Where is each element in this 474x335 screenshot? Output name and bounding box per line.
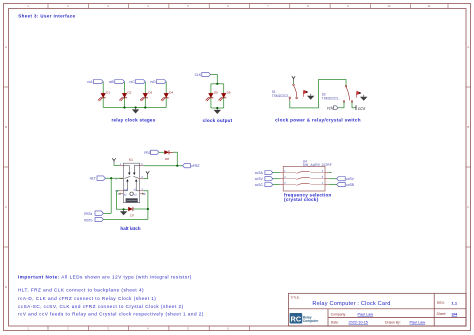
svg-text:Company:: Company: bbox=[331, 313, 347, 317]
wire rcB drop bbox=[124, 82, 126, 108]
svg-text:C: C bbox=[5, 205, 7, 209]
svg-text:cFRZ: cFRZ bbox=[191, 164, 199, 168]
title block divider logo column bbox=[327, 309, 329, 326]
svg-text:RSTa: RSTa bbox=[84, 212, 92, 216]
relay pin 6 bbox=[140, 175, 144, 179]
svg-text:10: 10 bbox=[387, 4, 391, 8]
relay coil pin annotations bbox=[124, 188, 137, 196]
global label RSTa bbox=[84, 211, 103, 216]
wire S1 throw to rail and over to S2 bbox=[290, 80, 346, 108]
svg-text:Date:: Date: bbox=[331, 321, 339, 325]
label rcV bbox=[327, 106, 338, 111]
svg-text:D: D bbox=[5, 285, 7, 289]
U4 row 1 bbox=[280, 170, 329, 173]
svg-text:(crystal clock): (crystal clock) bbox=[284, 197, 319, 202]
PWR_FLAG at S2 bbox=[357, 91, 362, 98]
LED D4 bbox=[161, 91, 174, 102]
relay pin 12 lower coil bbox=[116, 192, 123, 196]
relay pin 10 bbox=[115, 189, 123, 193]
wire RSTb to right rail bbox=[103, 218, 147, 220]
ground at S1 bbox=[307, 94, 314, 100]
svg-text:Important Note: All LEDs show: Important Note: All LEDs shown are 12V t… bbox=[18, 275, 192, 280]
frame ticks bottom bbox=[47, 326, 49, 331]
svg-text:rcD: rcD bbox=[150, 80, 156, 84]
global label cFRZ bbox=[183, 164, 200, 169]
wire HLT to RSTa vertical bbox=[110, 178, 112, 213]
svg-text:C: C bbox=[467, 205, 469, 209]
switch S1 bbox=[289, 84, 297, 101]
title block divider rev column bbox=[433, 293, 435, 326]
svg-text:D4: D4 bbox=[169, 91, 173, 95]
svg-text:D8: D8 bbox=[165, 157, 169, 161]
relay K1 body bbox=[123, 163, 139, 203]
svg-text:ccSA: ccSA bbox=[255, 171, 264, 175]
svg-text:ccV: ccV bbox=[358, 106, 366, 111]
svg-text:rcA-D, CLK and cFRZ connect to: rcA-D, CLK and cFRZ connect to Relay Clo… bbox=[18, 296, 156, 301]
svg-text:rcC: rcC bbox=[130, 80, 136, 84]
ground clock output bbox=[214, 108, 221, 114]
svg-text:HLT: HLT bbox=[90, 177, 96, 181]
svg-text:Paul Law: Paul Law bbox=[358, 313, 374, 317]
wire HLT to relay pin3 bbox=[105, 177, 123, 179]
junction rcB rail bbox=[123, 106, 125, 108]
relay pin 9 lower coil bbox=[140, 192, 146, 196]
svg-text:D6: D6 bbox=[227, 91, 231, 95]
wire ccSA to pin bbox=[273, 172, 280, 174]
global label FRZ bbox=[144, 150, 159, 155]
svg-text:ccSA-SC, ccSV, CLK and cFRZ co: ccSA-SC, ccSV, CLK and cFRZ connect to C… bbox=[18, 304, 184, 309]
ground at latch bbox=[120, 209, 127, 215]
relay coil polarity circle bbox=[130, 192, 133, 195]
svg-text:1.1: 1.1 bbox=[452, 300, 458, 305]
svg-text:B: B bbox=[467, 125, 469, 129]
global label ccSB right bbox=[337, 182, 355, 187]
title block divider title row bbox=[289, 308, 467, 310]
wire relay pin10 down to D7 rail bbox=[116, 191, 123, 210]
svg-text:A: A bbox=[5, 45, 7, 49]
relay pin 3 bbox=[116, 177, 124, 181]
LED D5 bbox=[205, 91, 218, 102]
wire bottom rail clock bbox=[211, 107, 224, 109]
global label ccSV right bbox=[337, 177, 355, 182]
diode D8 bbox=[164, 150, 173, 161]
global label ccSV bbox=[255, 177, 273, 182]
ground relay clock stages bbox=[132, 108, 139, 114]
junction HLT bbox=[110, 177, 112, 179]
svg-text:11: 11 bbox=[427, 4, 430, 8]
wire relay pin1 to right rail down bbox=[143, 191, 148, 220]
svg-text:RSTb: RSTb bbox=[84, 218, 92, 222]
svg-text:rcA: rcA bbox=[87, 80, 93, 84]
wire RSTa bbox=[103, 212, 111, 214]
svg-text:Computer: Computer bbox=[303, 319, 319, 323]
wire rcA drop bbox=[102, 82, 104, 108]
svg-text:B: B bbox=[5, 125, 7, 129]
wire FRZ to D8 bbox=[159, 151, 164, 153]
global label ccSA bbox=[255, 171, 273, 176]
svg-text:ccSB: ccSB bbox=[346, 183, 355, 187]
svg-text:A: A bbox=[467, 45, 469, 49]
relay internal contacts bbox=[123, 165, 139, 190]
wire S2 right throw to ccV bbox=[352, 102, 356, 107]
frame ticks right bbox=[466, 86, 471, 88]
svg-text:TITLE:: TITLE: bbox=[291, 295, 300, 299]
wire S2 left throw to rcV bbox=[338, 102, 344, 107]
LED D3 bbox=[140, 91, 153, 102]
wire rcC drop bbox=[144, 82, 146, 108]
wire right branch bbox=[223, 84, 225, 108]
svg-text:rcV and ccV feeds to Relay and: rcV and ccV feeds to Relay and Crystal c… bbox=[18, 312, 204, 317]
wire bottom rail stages bbox=[103, 107, 166, 109]
power symbol V at relay pin4 bbox=[112, 158, 115, 164]
svg-text:Sheet 3: User Interface: Sheet 3: User Interface bbox=[18, 14, 75, 19]
svg-text:TSM102C3..: TSM102C3.. bbox=[322, 97, 340, 101]
junction rcC rail bbox=[144, 106, 146, 108]
svg-text:FRZ: FRZ bbox=[144, 151, 151, 155]
wire top rail bbox=[211, 83, 224, 85]
wire U4 row3 to ccSB bbox=[329, 184, 337, 186]
svg-text:TSM102C3..: TSM102C3.. bbox=[272, 94, 290, 98]
relay pin 5 bbox=[140, 162, 144, 166]
frame ticks left bbox=[4, 86, 9, 88]
U4 row 2 bbox=[280, 176, 329, 179]
wire rcD drop bbox=[165, 82, 167, 108]
wire ccSC to pin bbox=[273, 184, 280, 186]
power symbol V at relay pin6 bbox=[146, 171, 149, 177]
wire D7 rail left segment bbox=[124, 208, 129, 210]
global label RSTb bbox=[84, 217, 103, 222]
junction bottom bbox=[216, 107, 218, 109]
svg-text:D3: D3 bbox=[148, 91, 152, 95]
switch S2 bbox=[343, 85, 353, 102]
svg-text:clock power & relay/crystal sw: clock power & relay/crystal switch bbox=[275, 117, 361, 122]
svg-text:Drawn By:: Drawn By: bbox=[385, 321, 401, 325]
relay coil block bbox=[126, 198, 138, 202]
wire D7 to right rail bbox=[133, 208, 148, 210]
svg-text:D5: D5 bbox=[214, 91, 218, 95]
relay pin 1 bbox=[140, 187, 144, 191]
junction ground tap bbox=[135, 106, 137, 108]
diode D7 bbox=[128, 207, 134, 218]
global label CLK bbox=[195, 72, 211, 76]
svg-text:halt latch: halt latch bbox=[120, 226, 140, 231]
svg-text:ccSV: ccSV bbox=[346, 177, 355, 181]
svg-text:RC: RC bbox=[291, 314, 302, 323]
svg-text:CLK: CLK bbox=[195, 73, 202, 77]
U4 row 3 bbox=[280, 182, 329, 185]
global label ccSC bbox=[255, 183, 273, 188]
svg-text:ccSV: ccSV bbox=[255, 177, 264, 181]
svg-text:rcV: rcV bbox=[327, 106, 334, 111]
no-connect x left bbox=[119, 193, 121, 195]
svg-text:relay clock stages: relay clock stages bbox=[111, 118, 155, 123]
wire V to S1 common bbox=[293, 82, 295, 85]
wire U4 row1 stub bbox=[329, 172, 332, 174]
global label rcD bbox=[150, 80, 166, 84]
svg-text:D2: D2 bbox=[127, 91, 131, 95]
wire relay pin5 to junction bbox=[143, 165, 182, 167]
wire U4 row2 to ccSV bbox=[329, 178, 337, 180]
LED D6 bbox=[218, 91, 231, 102]
global label rcB bbox=[109, 80, 125, 84]
svg-text:ccSC: ccSC bbox=[255, 183, 264, 187]
junction D7 left bbox=[123, 208, 125, 210]
global label rcA bbox=[87, 80, 103, 84]
U4 body bbox=[283, 166, 325, 191]
LED D2 bbox=[119, 91, 132, 102]
title block divider middle row bbox=[328, 317, 466, 319]
svg-text:D7: D7 bbox=[130, 213, 134, 217]
junction right rail bbox=[147, 208, 149, 210]
LED D1 bbox=[98, 91, 111, 102]
wire ccSV to pin bbox=[273, 178, 280, 180]
svg-text:+a2: +a2 bbox=[124, 188, 129, 191]
svg-text:K1: K1 bbox=[129, 158, 133, 162]
svg-text:Sheet:: Sheet: bbox=[437, 312, 447, 316]
power symbol ccV bbox=[356, 105, 365, 111]
junction top bbox=[216, 83, 218, 85]
svg-text:HLT, FRZ and CLK connect to ba: HLT, FRZ and CLK connect to backplane (s… bbox=[18, 288, 144, 293]
svg-text:REV:: REV: bbox=[437, 301, 445, 305]
svg-text:Paul Law: Paul Law bbox=[410, 321, 426, 325]
svg-text:3/4: 3/4 bbox=[452, 311, 458, 316]
title block outline bbox=[289, 293, 467, 326]
no-connect x right bbox=[142, 193, 144, 195]
PWR_FLAG at S1 bbox=[304, 90, 309, 97]
svg-text:D1: D1 bbox=[106, 91, 110, 95]
relay pin 4 bbox=[120, 162, 124, 166]
svg-text:rcB: rcB bbox=[109, 80, 115, 84]
global label rcC bbox=[130, 80, 146, 84]
wire pin6 to V bbox=[143, 177, 147, 179]
svg-text:Relay Computer : Clock Card: Relay Computer : Clock Card bbox=[312, 301, 390, 307]
wire left branch bbox=[210, 84, 212, 108]
power symbol V at S1 bbox=[292, 76, 295, 82]
svg-text:clock output: clock output bbox=[203, 118, 233, 123]
wire V to pin4 bbox=[114, 164, 120, 166]
logo mark bbox=[290, 313, 319, 324]
junction cFRZ bbox=[176, 165, 178, 167]
wire D8 to cFRZ junction bbox=[173, 152, 177, 165]
wire CLK to branch bbox=[211, 75, 218, 84]
global label HLT bbox=[90, 176, 106, 181]
svg-text:2022-10-15: 2022-10-15 bbox=[349, 321, 368, 325]
ground at S2 bbox=[360, 95, 367, 101]
